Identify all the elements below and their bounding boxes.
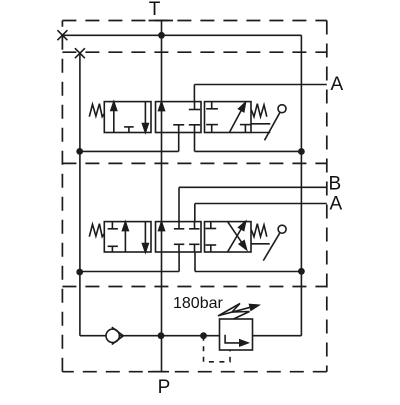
svg-text:B: B xyxy=(329,174,342,195)
svg-text:T: T xyxy=(149,0,161,20)
svg-text:A: A xyxy=(330,193,343,214)
svg-text:180bar: 180bar xyxy=(173,295,223,312)
svg-text:P: P xyxy=(158,377,171,398)
svg-text:A: A xyxy=(331,74,344,95)
